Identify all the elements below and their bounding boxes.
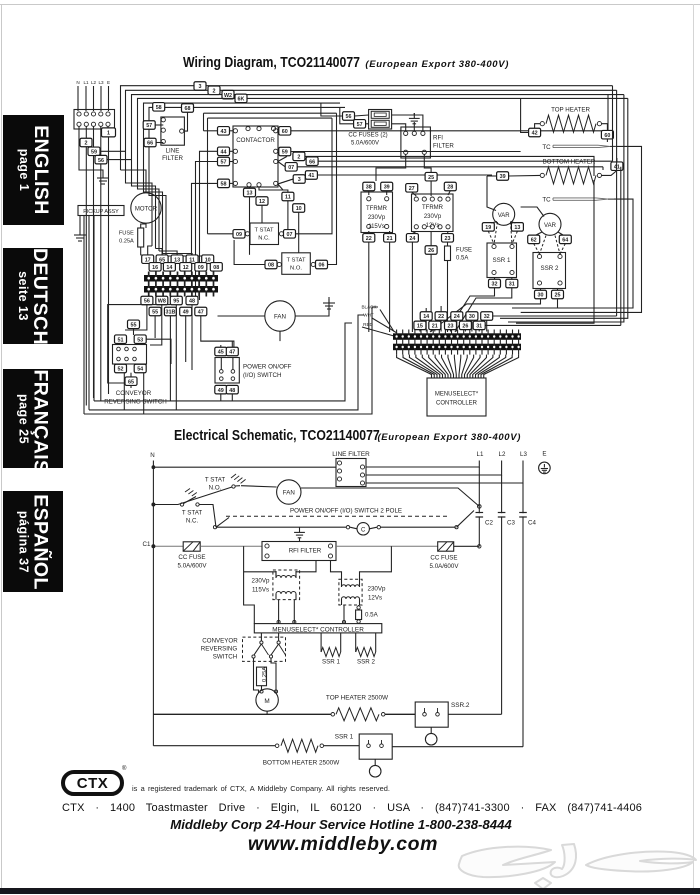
terminal box 10c (293, 204, 305, 213)
left strip terminal box 13b (171, 255, 183, 264)
power switch pole1 lever (216, 518, 229, 528)
terminal box 59 (88, 147, 100, 156)
svg-text:60: 60 (604, 133, 610, 139)
svg-text:15: 15 (417, 324, 423, 330)
power on/off switch S1 body (215, 358, 239, 384)
svg-text:57: 57 (357, 122, 363, 128)
fuse F3 schematic 0.25A (257, 667, 267, 686)
svg-text:TC: TC (542, 197, 551, 204)
ssr1 K2 box (487, 243, 517, 278)
left terminal strip rail upper (145, 276, 218, 282)
cc fuse left schematic (183, 542, 200, 551)
supply lead wires (77, 86, 79, 111)
svg-text:115Vs: 115Vs (252, 587, 269, 594)
svg-text:C1: C1 (143, 541, 151, 548)
svg-text:E: E (542, 451, 546, 458)
ssr2 terminal box 25b (552, 290, 564, 299)
fan B2 schematic (277, 480, 301, 504)
top bus wire A (121, 86, 195, 170)
power switch top wires (220, 345, 222, 347)
conveyor 65 loop wire (108, 305, 171, 383)
conveyor reversing switch dashed box (243, 637, 286, 661)
svg-text:3: 3 (298, 177, 301, 183)
svg-text:52: 52 (118, 367, 124, 373)
left strip lower terminal box 48 (186, 296, 198, 305)
svg-text:N.O.: N.O. (290, 266, 302, 272)
svg-text:N: N (76, 80, 79, 85)
left strip terminal box 16 (149, 263, 161, 272)
svg-text:SSR 1: SSR 1 (493, 257, 511, 264)
title electrical schematic (174, 428, 561, 444)
CTX logo (61, 770, 124, 796)
terminal box 2 (80, 138, 92, 147)
contactor bottom terminal box 13 (244, 188, 256, 197)
variable control VAR2 (539, 213, 561, 235)
svg-text:CONTACTOR: CONTACTOR (236, 137, 275, 144)
conveyor switch contacts (260, 633, 262, 641)
motor lead (145, 223, 147, 228)
svg-text:21: 21 (432, 324, 438, 330)
svg-text:07: 07 (287, 232, 293, 238)
capacitor C3 (501, 513, 503, 516)
transformer T1 schematic dashed box (273, 570, 300, 600)
wire 66 to filter (156, 142, 163, 144)
svg-text:CONTROLLER: CONTROLLER (436, 401, 478, 407)
contactor terminal box 57b (218, 157, 230, 166)
watermark (455, 840, 700, 892)
svg-text:38: 38 (366, 185, 372, 191)
svg-text:T STAT: T STAT (286, 258, 305, 264)
terminal box 6K top bus (235, 94, 247, 103)
top heater HR1 (540, 122, 544, 126)
svg-text:TFRMR: TFRMR (422, 205, 444, 211)
svg-text:VAR: VAR (498, 213, 511, 219)
svg-text:21: 21 (387, 236, 393, 242)
heater terminal box 41c (611, 162, 623, 171)
big strip terminal box 14b (420, 312, 432, 321)
tab ENGLISH page 1 (3, 115, 64, 225)
svg-text:230Vp: 230Vp (252, 578, 270, 585)
svg-text:14: 14 (423, 314, 429, 320)
big strip terminal box 26b (459, 321, 471, 330)
ssr2 contactor box schematic (415, 702, 448, 727)
T2 feed wires (331, 561, 342, 582)
top feed wire to line filter (153, 466, 336, 468)
svg-text:32: 32 (492, 282, 498, 288)
ssr1 terminal box 32 (489, 279, 501, 288)
svg-text:VAR: VAR (544, 223, 557, 229)
VAR2 terminal box 64 (559, 235, 571, 244)
svg-text:FILTER: FILTER (162, 155, 183, 162)
ssr1 drive loop (320, 633, 322, 646)
power switch terminal box 49b (215, 385, 227, 394)
terminal box 66b (306, 157, 318, 166)
svg-text:TFRMR: TFRMR (366, 206, 388, 212)
tstat NO terminal box 06 (316, 260, 328, 269)
svg-text:60: 60 (282, 129, 288, 135)
svg-text:(I/O) SWITCH: (I/O) SWITCH (243, 372, 282, 379)
svg-text:12Vs: 12Vs (368, 595, 382, 602)
svg-text:W8: W8 (158, 299, 166, 305)
contactor terminal box 60 (279, 127, 291, 136)
svg-text:13: 13 (514, 225, 520, 231)
svg-text:MENUSELECT* CONTROLLER: MENUSELECT* CONTROLLER (272, 626, 364, 633)
svg-text:39: 39 (384, 185, 390, 191)
conveyor terminal box 55c (128, 320, 140, 329)
left strip terminal box 14 (163, 263, 175, 272)
svg-text:27: 27 (409, 186, 415, 192)
big strip terminal box 23b (445, 321, 457, 330)
svg-text:95: 95 (173, 299, 179, 305)
svg-text:3: 3 (199, 84, 202, 90)
top bus wire D (138, 98, 236, 251)
wire 39 to bottom heater (497, 172, 509, 181)
svg-text:FUSE: FUSE (119, 231, 134, 237)
svg-text:47: 47 (229, 350, 235, 356)
svg-text:TOP HEATER: TOP HEATER (551, 107, 590, 114)
svg-text:230Vp: 230Vp (368, 586, 386, 593)
svg-text:10: 10 (296, 206, 302, 212)
svg-text:L3: L3 (98, 80, 104, 85)
power switch terminal box 48b (226, 385, 238, 394)
T1 terminal box 39 (381, 182, 393, 191)
cc fuses terminal box 57c (354, 120, 366, 129)
svg-text:49: 49 (183, 310, 189, 316)
svg-text:CC FUSE: CC FUSE (430, 555, 457, 562)
left strip terminal box 09b (195, 263, 207, 272)
big strip terminal box 22b (435, 312, 447, 321)
left strip lower terminal box W8 (156, 296, 168, 305)
svg-text:24: 24 (454, 314, 460, 320)
svg-text:49: 49 (218, 388, 224, 394)
ssr wires to bus right (430, 299, 541, 332)
title wiring diagram (183, 55, 536, 71)
left strip through wires (148, 272, 150, 297)
left strip lower terminal box 56b (141, 296, 153, 305)
svg-text:24: 24 (409, 236, 415, 242)
capacitor C2 (478, 513, 480, 516)
contactor terminal box 59b (279, 147, 291, 156)
svg-text:56: 56 (346, 114, 352, 120)
page top border (0, 4, 700, 5)
terminal box W2 top bus (222, 90, 234, 99)
contactor terminal box 58b (218, 179, 230, 188)
line filter output wires L1 L2 L3 (366, 461, 479, 468)
line filter FL1 box (161, 117, 185, 145)
svg-text:5.0A/600V: 5.0A/600V (178, 563, 208, 570)
conveyor terminal box 65b (125, 377, 137, 386)
heater terminal box 60b (601, 130, 613, 139)
svg-text:64: 64 (562, 238, 568, 244)
tab DEUTSCH seite 13 (3, 248, 63, 344)
left strip terminal box 11b (186, 255, 198, 264)
page left border (1, 4, 2, 888)
main strip terminal dots (396, 336, 398, 338)
contactor terminal box 43 (218, 127, 230, 136)
wire E riser (107, 126, 109, 128)
VAR2 terminal box 62 (528, 235, 540, 244)
svg-text:12: 12 (183, 265, 189, 271)
T1 feed wires (244, 572, 276, 576)
ground pickup (79, 229, 81, 235)
svg-text:55: 55 (131, 323, 137, 329)
svg-text:FILTER: FILTER (433, 143, 454, 150)
svg-text:T STAT: T STAT (205, 477, 225, 484)
terminal box 2 top bus (208, 86, 220, 95)
T1 primary coil (276, 576, 296, 579)
bus wire G to contactor (204, 112, 337, 114)
T2 terminal box 27 (406, 184, 418, 193)
svg-text:12: 12 (259, 199, 265, 205)
left strip lower terminal box 49 (180, 307, 192, 316)
svg-text:56: 56 (144, 299, 150, 305)
bottom loop wire red (94, 323, 352, 401)
power switch dashed link (226, 515, 449, 517)
main terminal strip rail lower (394, 344, 521, 350)
big strip terminal box 21b (429, 321, 441, 330)
left strip lower terminal box 95 (170, 296, 182, 305)
big strip terminal box 30b (466, 312, 478, 321)
svg-text:SSR 2: SSR 2 (357, 659, 375, 666)
ssr2 K3 box (533, 253, 566, 289)
svg-text:08: 08 (268, 263, 274, 269)
svg-text:TC: TC (542, 144, 551, 151)
main lower feed wire (153, 545, 183, 547)
terminal box 2b (293, 152, 305, 161)
svg-text:06: 06 (319, 263, 325, 269)
svg-text:T STAT: T STAT (254, 228, 273, 234)
svg-text:59: 59 (91, 150, 97, 156)
tstat NC contact schematic (153, 504, 170, 506)
svg-text:48: 48 (229, 388, 235, 394)
big strip feed wires (425, 320, 427, 331)
transformer T2 schematic dashed box (339, 579, 362, 605)
svg-text:6K: 6K (238, 97, 245, 103)
svg-text:07: 07 (288, 165, 294, 171)
wires below left strip (125, 305, 147, 330)
right bus elbows to strip (493, 315, 617, 317)
bus wire F (149, 107, 345, 256)
fuse F3 0.25A (138, 228, 144, 247)
fuse F4 0.5A (445, 246, 451, 261)
svg-text:0.25A: 0.25A (262, 667, 268, 682)
ssr1 coil circle (374, 759, 376, 765)
svg-text:BLACK: BLACK (361, 305, 377, 310)
tstat NC terminal box 09 (233, 230, 245, 239)
T1 terminal box 21 (384, 234, 396, 243)
ground below terminal block (102, 172, 104, 178)
wire L2 riser (93, 126, 95, 147)
svg-text:SSR 2: SSR 2 (541, 265, 559, 272)
bottom bar (0, 888, 700, 894)
svg-text:65: 65 (128, 379, 134, 385)
svg-text:43: 43 (221, 129, 227, 135)
svg-text:LINE: LINE (166, 148, 180, 155)
svg-text:25: 25 (428, 175, 434, 181)
svg-text:CONVEYOR: CONVEYOR (202, 638, 238, 645)
bus wire H to contactor (208, 117, 333, 119)
power switch pole2 lever (457, 511, 475, 528)
svg-text:57: 57 (146, 123, 152, 129)
svg-text:CC FUSE: CC FUSE (178, 554, 205, 561)
bottom heater wire (153, 745, 275, 747)
L3 riser (522, 483, 524, 747)
fan drop wire to power switch (279, 331, 281, 341)
wire L1 bus riser (85, 126, 87, 138)
T2 primary coil (342, 585, 360, 587)
left strip lower terminal box 31B (164, 307, 176, 316)
svg-text:TOP HEATER 2500W: TOP HEATER 2500W (326, 695, 389, 702)
left strip terminal box 10 (202, 255, 214, 264)
svg-text:2: 2 (213, 89, 216, 95)
fan B2 (265, 301, 295, 331)
svg-text:0.5A: 0.5A (456, 256, 468, 262)
svg-text:57: 57 (221, 160, 227, 166)
svg-text:53: 53 (137, 337, 143, 343)
rfi ground schematic (299, 527, 301, 532)
rfi filter top wires (392, 124, 406, 132)
svg-text:C2: C2 (485, 520, 493, 527)
svg-text:5.0A/600V: 5.0A/600V (430, 563, 460, 570)
top heater wire (153, 713, 331, 715)
T2 terminal box 23 (442, 234, 454, 243)
rfi filter bottom wires (376, 154, 406, 181)
motor B1 (131, 193, 161, 223)
cc fuse wires (355, 115, 369, 116)
big strip terminal box 31b (473, 321, 485, 330)
contactor K1 box (233, 126, 278, 187)
terminal box 12c (256, 197, 268, 206)
svg-text:23: 23 (448, 324, 454, 330)
ssr2 terminal box 30 (535, 290, 547, 299)
svg-text:SWITCH: SWITCH (213, 654, 237, 661)
T2 terminal box 24 (406, 234, 418, 243)
wire 68 drop to filter (184, 112, 188, 131)
VAR1 terminal box 19 (482, 223, 494, 232)
neutral rail (152, 461, 154, 746)
svg-text:25: 25 (555, 293, 561, 299)
svg-text:66: 66 (147, 141, 153, 147)
svg-text:62: 62 (531, 238, 537, 244)
svg-text:11: 11 (285, 195, 291, 201)
conveyor motor M (256, 689, 278, 711)
bottom loop wire white (89, 315, 364, 410)
svg-text:LINE FILTER: LINE FILTER (332, 451, 370, 458)
right bus verticals (607, 95, 609, 131)
svg-text:CONVEYOR: CONVEYOR (116, 390, 152, 397)
terminal box 3b (293, 175, 305, 184)
T1 secondary leads (278, 600, 280, 624)
fan wires schematic (241, 486, 277, 487)
left strip lower terminal box 55 (149, 307, 161, 316)
conveyor switch wires (133, 329, 135, 336)
svg-text:CC FUSES (2): CC FUSES (2) (348, 133, 387, 139)
pickup assembly (78, 206, 124, 216)
tstat NO S3 box (282, 253, 311, 274)
svg-text:C3: C3 (507, 520, 515, 527)
svg-text:N: N (150, 452, 154, 459)
terminal box 58 line filter top (153, 103, 165, 112)
svg-text:22: 22 (366, 236, 372, 242)
rfi ground (413, 113, 415, 118)
controller fan-out wires (397, 355, 432, 378)
svg-text:BOTTOM HEATER: BOTTOM HEATER (543, 159, 596, 166)
svg-text:30: 30 (469, 314, 475, 320)
terminal box 66 line filter (144, 138, 156, 147)
conveyor terminal box 53 (134, 335, 146, 344)
svg-text:230Vp: 230Vp (368, 215, 386, 221)
svg-text:55: 55 (152, 310, 158, 316)
transformer T2 box (412, 194, 454, 232)
variable control VAR1 (493, 203, 515, 225)
svg-text:FUSE: FUSE (456, 248, 472, 254)
svg-text:59: 59 (282, 150, 288, 156)
bottom heater HR2 (540, 173, 544, 177)
svg-text:48: 48 (189, 299, 195, 305)
svg-text:POWER ON/OFF: POWER ON/OFF (243, 364, 292, 371)
svg-text:REVERSING: REVERSING (201, 646, 238, 653)
svg-text:58: 58 (221, 182, 227, 188)
svg-text:16: 16 (152, 265, 158, 271)
svg-text:31B: 31B (165, 310, 175, 316)
svg-text:1: 1 (107, 131, 110, 137)
svg-text:66: 66 (309, 159, 315, 165)
terminal box 41b (305, 171, 317, 180)
bottom loop wire black (84, 307, 378, 414)
svg-text:56: 56 (98, 158, 104, 164)
svg-text:E: E (107, 80, 110, 85)
svg-text:N.C.: N.C. (186, 518, 199, 525)
protective earth symbol E (539, 462, 551, 474)
ssr2 coil circle (430, 727, 432, 733)
supply terminal block TB1 (74, 110, 115, 130)
left strip terminal box 12 (180, 263, 192, 272)
svg-text:SSR.2: SSR.2 (451, 702, 470, 709)
wire fuse right to L1 (454, 545, 480, 547)
left strip terminal dots (148, 277, 150, 279)
svg-text:14: 14 (166, 265, 172, 271)
T2 terminal box 25 (425, 172, 437, 181)
svg-text:54: 54 (137, 367, 143, 373)
svg-text:45: 45 (218, 350, 224, 356)
svg-text:39: 39 (500, 174, 506, 180)
svg-text:L2: L2 (91, 80, 97, 85)
tab ESPANOL pagina 37 (3, 491, 63, 592)
svg-text:POWER ON/OFF (I/O) SWITCH 2 PO: POWER ON/OFF (I/O) SWITCH 2 POLE (290, 508, 402, 515)
svg-text:FAN: FAN (274, 314, 286, 321)
big strip terminal box 15 (414, 321, 426, 330)
svg-text:L2: L2 (499, 451, 506, 458)
line filter FL1 schematic box (336, 459, 366, 487)
tstat NC terminal box 07 (284, 230, 296, 239)
svg-text:58: 58 (156, 105, 162, 111)
svg-text:22: 22 (438, 314, 444, 320)
terminal box 07b (285, 163, 297, 172)
svg-text:68: 68 (185, 106, 191, 112)
T2 terminal box 28 (444, 182, 456, 191)
conveyor terminal box 52 (115, 364, 127, 373)
svg-text:REVERSING SWITCH: REVERSING SWITCH (104, 399, 167, 406)
svg-text:0.5A: 0.5A (365, 612, 379, 619)
main terminal strip rail upper (394, 334, 521, 340)
T1 secondary coil (276, 592, 296, 595)
svg-text:0.25A: 0.25A (119, 239, 134, 245)
svg-text:23: 23 (445, 236, 451, 242)
T1 terminal box 38 (363, 182, 375, 191)
contactor bottom terminal box 11 (282, 192, 294, 201)
left strip terminal box 65 (156, 255, 168, 264)
terminal box 68 line filter (182, 104, 194, 113)
